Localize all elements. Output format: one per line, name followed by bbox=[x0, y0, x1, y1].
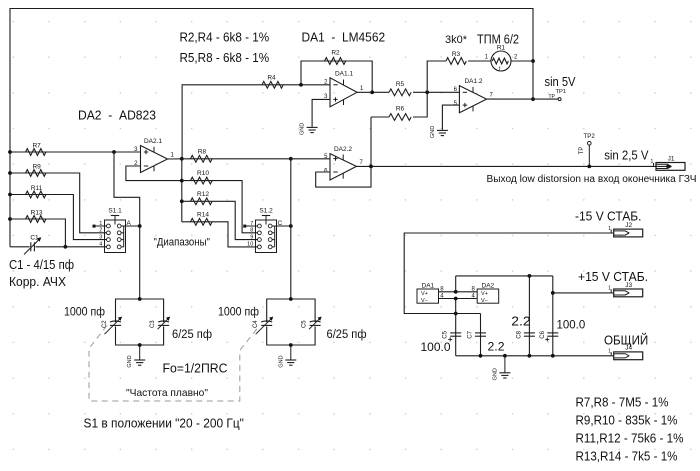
svg-text:R9: R9 bbox=[32, 164, 41, 171]
resistor R2 bbox=[325, 58, 346, 65]
svg-text:C1 - 4/15 пф: C1 - 4/15 пф bbox=[9, 258, 74, 272]
svg-text:GND: GND bbox=[127, 355, 133, 367]
svg-text:C4: C4 bbox=[253, 320, 259, 328]
connector J2 bbox=[614, 229, 643, 237]
svg-text:C2: C2 bbox=[102, 320, 108, 328]
resistor R10 bbox=[190, 177, 212, 184]
node: C junction bbox=[289, 224, 293, 228]
switch S1.1 bbox=[105, 220, 126, 253]
node: box2 bottom bbox=[289, 343, 293, 347]
svg-text:R7,R8 - 7M5 - 1%: R7,R8 - 7M5 - 1% bbox=[576, 396, 669, 410]
svg-text:S1.2: S1.2 bbox=[259, 208, 273, 215]
node: R5/R3/DA1.2 -in bbox=[425, 90, 429, 94]
mechanical gang linkage (dashed) bbox=[89, 326, 258, 402]
resistor R6 bbox=[389, 114, 411, 121]
svg-text:R6: R6 bbox=[396, 106, 405, 113]
tuning box 2 wiring bbox=[267, 299, 315, 322]
svg-text:R11: R11 bbox=[31, 185, 43, 192]
svg-text:"Частота плавно": "Частота плавно" bbox=[126, 387, 208, 399]
capacitor C5 100.0 bbox=[450, 332, 461, 334]
node: left bus R13 bbox=[8, 217, 12, 221]
wire: R4 row and vertical to DA2.1 out bbox=[182, 85, 301, 159]
node: DA1.1 -in/R2/R4 bbox=[299, 83, 303, 87]
ground (box1) bbox=[139, 345, 141, 360]
svg-text:GND: GND bbox=[430, 126, 436, 138]
wire: middle bank vertical bbox=[181, 159, 183, 222]
node: bank/out bbox=[180, 157, 184, 161]
wire: out to TP1 bbox=[533, 98, 558, 100]
svg-text:1: 1 bbox=[651, 159, 654, 165]
capacitor C3 (variable) bbox=[158, 321, 169, 322]
svg-text:R14: R14 bbox=[197, 212, 209, 219]
wire: DA1.1 +in to gnd bbox=[312, 99, 330, 126]
svg-text:-15 V СТАБ.: -15 V СТАБ. bbox=[575, 210, 642, 224]
svg-text:3: 3 bbox=[99, 234, 102, 240]
node: DA1.1 out bbox=[370, 90, 374, 94]
port marker S1.1 pin1 bbox=[93, 225, 96, 228]
svg-text:V−: V− bbox=[421, 298, 428, 304]
wire: common bus bbox=[456, 355, 614, 357]
svg-text:DA1 - LM4562: DA1 - LM4562 bbox=[302, 29, 386, 44]
wire: R10 row to S1.2 pin8 bbox=[182, 181, 258, 233]
capacitor C1 (variable) bbox=[30, 242, 32, 251]
wire: pin4-pin4 bbox=[439, 298, 478, 300]
node: A junction bbox=[138, 224, 142, 228]
wire: pin8-pin8 bbox=[439, 291, 478, 293]
wire: left bus to C1 bbox=[10, 246, 30, 248]
node: bus GND bbox=[503, 354, 507, 358]
svg-text:100.0: 100.0 bbox=[421, 340, 451, 354]
svg-text:GND: GND bbox=[300, 123, 306, 135]
wire: DA1.2 out bbox=[487, 98, 533, 100]
svg-text:DA1.2: DA1.2 bbox=[464, 78, 482, 85]
svg-text:100.0: 100.0 bbox=[557, 317, 586, 331]
node: pin4 row bbox=[454, 297, 458, 301]
svg-text:DA2 - AD823: DA2 - AD823 bbox=[78, 107, 156, 122]
svg-text:DA2.1: DA2.1 bbox=[144, 138, 162, 145]
wire: R14 row to S1.2 pin10 bbox=[182, 222, 258, 247]
node: R13/C1 junction bbox=[64, 245, 68, 249]
svg-text:V+: V+ bbox=[421, 291, 428, 297]
svg-text:4: 4 bbox=[99, 242, 102, 248]
svg-text:TP: TP bbox=[579, 147, 585, 155]
wire: V+ vertical to top rail bbox=[455, 276, 457, 292]
svg-text:V−: V− bbox=[481, 298, 488, 304]
svg-text:R2: R2 bbox=[331, 50, 340, 57]
svg-text:1: 1 bbox=[608, 226, 611, 232]
node: R8/DA2.2 junction bbox=[289, 157, 293, 161]
svg-text:R12: R12 bbox=[197, 191, 209, 198]
wire: A node down to tuning box 1 bbox=[139, 226, 141, 299]
svg-text:DA2.2: DA2.2 bbox=[334, 146, 352, 153]
wire: C7 branch bbox=[480, 314, 482, 356]
svg-text:J1: J1 bbox=[668, 155, 675, 162]
wire: DA2.2 out to R6 bbox=[370, 117, 372, 166]
svg-text:R7: R7 bbox=[32, 143, 41, 150]
ground (DA1.2 +in) bbox=[441, 129, 443, 132]
svg-text:2.2: 2.2 bbox=[511, 314, 530, 328]
svg-text:S1.1: S1.1 bbox=[108, 208, 122, 215]
svg-text:C1: C1 bbox=[30, 234, 39, 241]
thermistor R1 (TPM 6/2) bbox=[491, 51, 511, 71]
svg-text:DA1: DA1 bbox=[422, 283, 435, 290]
wire: R5 to DA1.2 -in bbox=[413, 91, 459, 93]
node: left bus R9 bbox=[8, 171, 12, 175]
svg-text:TP: TP bbox=[549, 94, 556, 100]
port marker S1.2 pin7 bbox=[243, 225, 246, 228]
svg-text:GND: GND bbox=[492, 368, 498, 380]
resistor R13 bbox=[26, 216, 46, 223]
connector J4 bbox=[614, 352, 643, 360]
test point TP1 bbox=[558, 98, 561, 101]
wire: +15V rail bbox=[553, 292, 614, 294]
svg-text:C6: C6 bbox=[540, 330, 546, 338]
connector J1 bbox=[656, 163, 685, 171]
svg-text:R9,R10 - 835k - 1%: R9,R10 - 835k - 1% bbox=[576, 414, 678, 428]
resistor R11 bbox=[26, 191, 46, 198]
capacitor C5 (variable) bbox=[310, 321, 321, 322]
wire: R11 row to S1.1 pin3 bbox=[10, 195, 107, 240]
svg-text:sin 5V: sin 5V bbox=[545, 75, 577, 89]
wire: -15V rail from J2 bbox=[404, 233, 614, 314]
node: C8 top bbox=[528, 274, 532, 278]
resistor R8 bbox=[190, 155, 212, 162]
test point TP2 bbox=[588, 145, 590, 166]
node: bank R10 bbox=[180, 179, 184, 183]
node: left bus R7 bbox=[8, 150, 12, 154]
resistor R14 bbox=[190, 218, 212, 225]
wire: R3 to R1 bbox=[468, 60, 491, 62]
svg-text:DA2: DA2 bbox=[482, 283, 495, 290]
ground (box2) bbox=[290, 345, 292, 360]
svg-text:C8: C8 bbox=[516, 330, 522, 338]
wire: C node vertical to tuning box 2 bbox=[290, 159, 292, 299]
wire: C8 branch bbox=[528, 276, 530, 356]
wire: R6 row bbox=[371, 116, 389, 118]
wire: R12 row to S1.2 pin9 bbox=[182, 201, 258, 239]
node: DA2.1 pin3 junction bbox=[112, 150, 116, 154]
svg-text:R5,R8 - 6k8 - 1%: R5,R8 - 6k8 - 1% bbox=[180, 50, 270, 65]
svg-text:2: 2 bbox=[99, 228, 102, 234]
svg-text:3k0*: 3k0* bbox=[445, 34, 468, 46]
capacitor C7 2.2 bbox=[475, 332, 486, 334]
svg-text:Выход low distorsion на вход о: Выход low distorsion на вход оконечника … bbox=[487, 174, 697, 185]
svg-text:S1 в положении "20 - 200 Гц": S1 в положении "20 - 200 Гц" bbox=[84, 417, 244, 431]
svg-text:2.2: 2.2 bbox=[488, 339, 505, 353]
node: TP2 junction bbox=[587, 165, 591, 169]
svg-text:V+: V+ bbox=[481, 291, 488, 297]
tuning box 1 wiring bbox=[116, 299, 164, 322]
svg-text:C5: C5 bbox=[302, 320, 308, 328]
wire: DA1.1 -in bbox=[301, 84, 330, 86]
ground (power) bbox=[504, 356, 506, 373]
svg-text:TP2: TP2 bbox=[584, 133, 596, 140]
svg-text:6/25 пф: 6/25 пф bbox=[327, 327, 367, 341]
capacitor C2 (variable, ganged) bbox=[110, 321, 121, 322]
svg-text:GND: GND bbox=[278, 355, 284, 367]
svg-text:TP1: TP1 bbox=[556, 89, 567, 95]
svg-text:R4: R4 bbox=[267, 75, 276, 82]
wire: pin3 node down to switch A node bbox=[114, 152, 140, 226]
svg-text:R5: R5 bbox=[396, 81, 405, 88]
node: box1 bottom bbox=[138, 343, 142, 347]
node: DA1.2 output junction bbox=[531, 97, 535, 101]
ground (DA1.1 +in) bbox=[311, 126, 313, 129]
op-amp DA1.2 bbox=[459, 86, 486, 113]
node: box1 top bbox=[138, 297, 142, 301]
node: bank R12 bbox=[180, 199, 184, 203]
svg-text:R8: R8 bbox=[198, 149, 207, 156]
wire: DA2.2 -in feedback loop bbox=[316, 166, 371, 187]
wire: R8 row bbox=[182, 158, 291, 160]
resistor R12 bbox=[190, 198, 212, 205]
svg-text:1000 пф: 1000 пф bbox=[64, 304, 105, 318]
resistor R9 bbox=[26, 170, 46, 177]
svg-text:+15 V СТАБ.: +15 V СТАБ. bbox=[578, 270, 648, 284]
svg-text:Fo=1/2ПRC: Fo=1/2ПRC bbox=[163, 362, 228, 376]
wire: R13 row down to C1 row bbox=[10, 219, 65, 247]
node: bus C8 bbox=[528, 354, 532, 358]
wire: R8 node to DA2.2 +in bbox=[291, 158, 330, 160]
IC power pins DA2 bbox=[477, 289, 499, 303]
node: bus C6 bbox=[551, 354, 555, 358]
svg-text:Корр. АЧХ: Корр. АЧХ bbox=[9, 275, 67, 289]
svg-text:R11,R12 - 75k6 - 1%: R11,R12 - 75k6 - 1% bbox=[576, 432, 684, 446]
svg-text:C3: C3 bbox=[150, 320, 156, 328]
node: R1 pin2 junction bbox=[531, 59, 535, 63]
IC power pins DA1 bbox=[417, 289, 439, 303]
svg-text:R10: R10 bbox=[197, 170, 209, 177]
switch S1.2 bbox=[256, 220, 277, 253]
op-amp DA2.2 bbox=[330, 154, 356, 180]
svg-text:R13,R14 - 7k5 - 1%: R13,R14 - 7k5 - 1% bbox=[576, 450, 678, 464]
node: bus C7 bbox=[479, 354, 483, 358]
node: V- junction bbox=[454, 312, 458, 316]
svg-text:8: 8 bbox=[250, 228, 253, 234]
capacitor C6 100.0 bbox=[547, 332, 558, 334]
op-amp DA1.1 bbox=[330, 78, 357, 107]
resistor R5 bbox=[389, 89, 411, 96]
wire: DA1.1 out bbox=[357, 91, 389, 93]
wire: V- up to pin4 row bbox=[455, 299, 457, 314]
svg-text:C: C bbox=[278, 220, 283, 227]
wire: C1 row to S1.1 pin4 bbox=[36, 246, 107, 248]
wire: DA2.1 +in bbox=[114, 151, 141, 153]
resistor R7 bbox=[26, 149, 46, 156]
svg-text:C7: C7 bbox=[468, 330, 474, 338]
svg-text:10: 10 bbox=[247, 242, 253, 248]
wire: R7 row bbox=[10, 151, 114, 153]
resistor R3 bbox=[446, 58, 466, 65]
capacitor C8 2.2 bbox=[524, 332, 535, 334]
capacitor C4 (variable, ganged) bbox=[261, 321, 272, 322]
op-amp DA2.1 bbox=[141, 146, 168, 173]
wire: DA1.2 +in to gnd bbox=[442, 105, 459, 130]
wire: DA2.2 out to J1 bbox=[356, 165, 656, 167]
node: box2 top bbox=[289, 297, 293, 301]
svg-text:R2,R4 - 6k8 - 1%: R2,R4 - 6k8 - 1% bbox=[180, 29, 270, 44]
node: +15V/C6 bbox=[551, 291, 555, 295]
svg-text:1000 пф: 1000 пф bbox=[218, 304, 259, 318]
svg-text:R13: R13 bbox=[31, 210, 43, 217]
svg-text:A: A bbox=[127, 220, 132, 227]
svg-text:"Диапазоны": "Диапазоны" bbox=[154, 237, 210, 249]
resistor R4 bbox=[262, 81, 283, 88]
wire: DA2.1 out bbox=[168, 158, 182, 160]
svg-text:ОБЩИЙ: ОБЩИЙ bbox=[604, 332, 648, 347]
svg-text:1: 1 bbox=[608, 349, 611, 355]
wire: C5 branch bbox=[455, 314, 457, 356]
svg-text:sin 2,5 V: sin 2,5 V bbox=[604, 149, 649, 163]
svg-text:6/25 пф: 6/25 пф bbox=[172, 327, 212, 341]
svg-text:ТПМ 6/2: ТПМ 6/2 bbox=[477, 33, 519, 47]
wire: C6 branch bbox=[552, 276, 554, 356]
node: left bus R11 bbox=[8, 193, 12, 197]
node: DA2.2 out bbox=[369, 165, 373, 169]
wire: R1 to vertical bbox=[511, 60, 533, 62]
wire: feedback net from DA1.2 out to top and left input bus bbox=[10, 9, 533, 247]
wire: top rail bbox=[456, 275, 553, 277]
svg-text:R3: R3 bbox=[452, 51, 461, 58]
svg-text:C5: C5 bbox=[443, 330, 449, 338]
node: pin8 row bbox=[454, 290, 458, 294]
wire: R9 row to S1.1 pin2 bbox=[10, 173, 107, 233]
svg-text:9: 9 bbox=[250, 234, 253, 240]
connector J3 bbox=[614, 289, 643, 297]
wire: DA2.1 -in loop to R10 node bbox=[126, 166, 182, 181]
wire: R2 feedback loop bbox=[301, 61, 372, 92]
svg-text:1: 1 bbox=[608, 286, 611, 292]
svg-text:DA1.1: DA1.1 bbox=[335, 71, 353, 78]
wire: R6 to R3 vertical bbox=[413, 61, 446, 117]
